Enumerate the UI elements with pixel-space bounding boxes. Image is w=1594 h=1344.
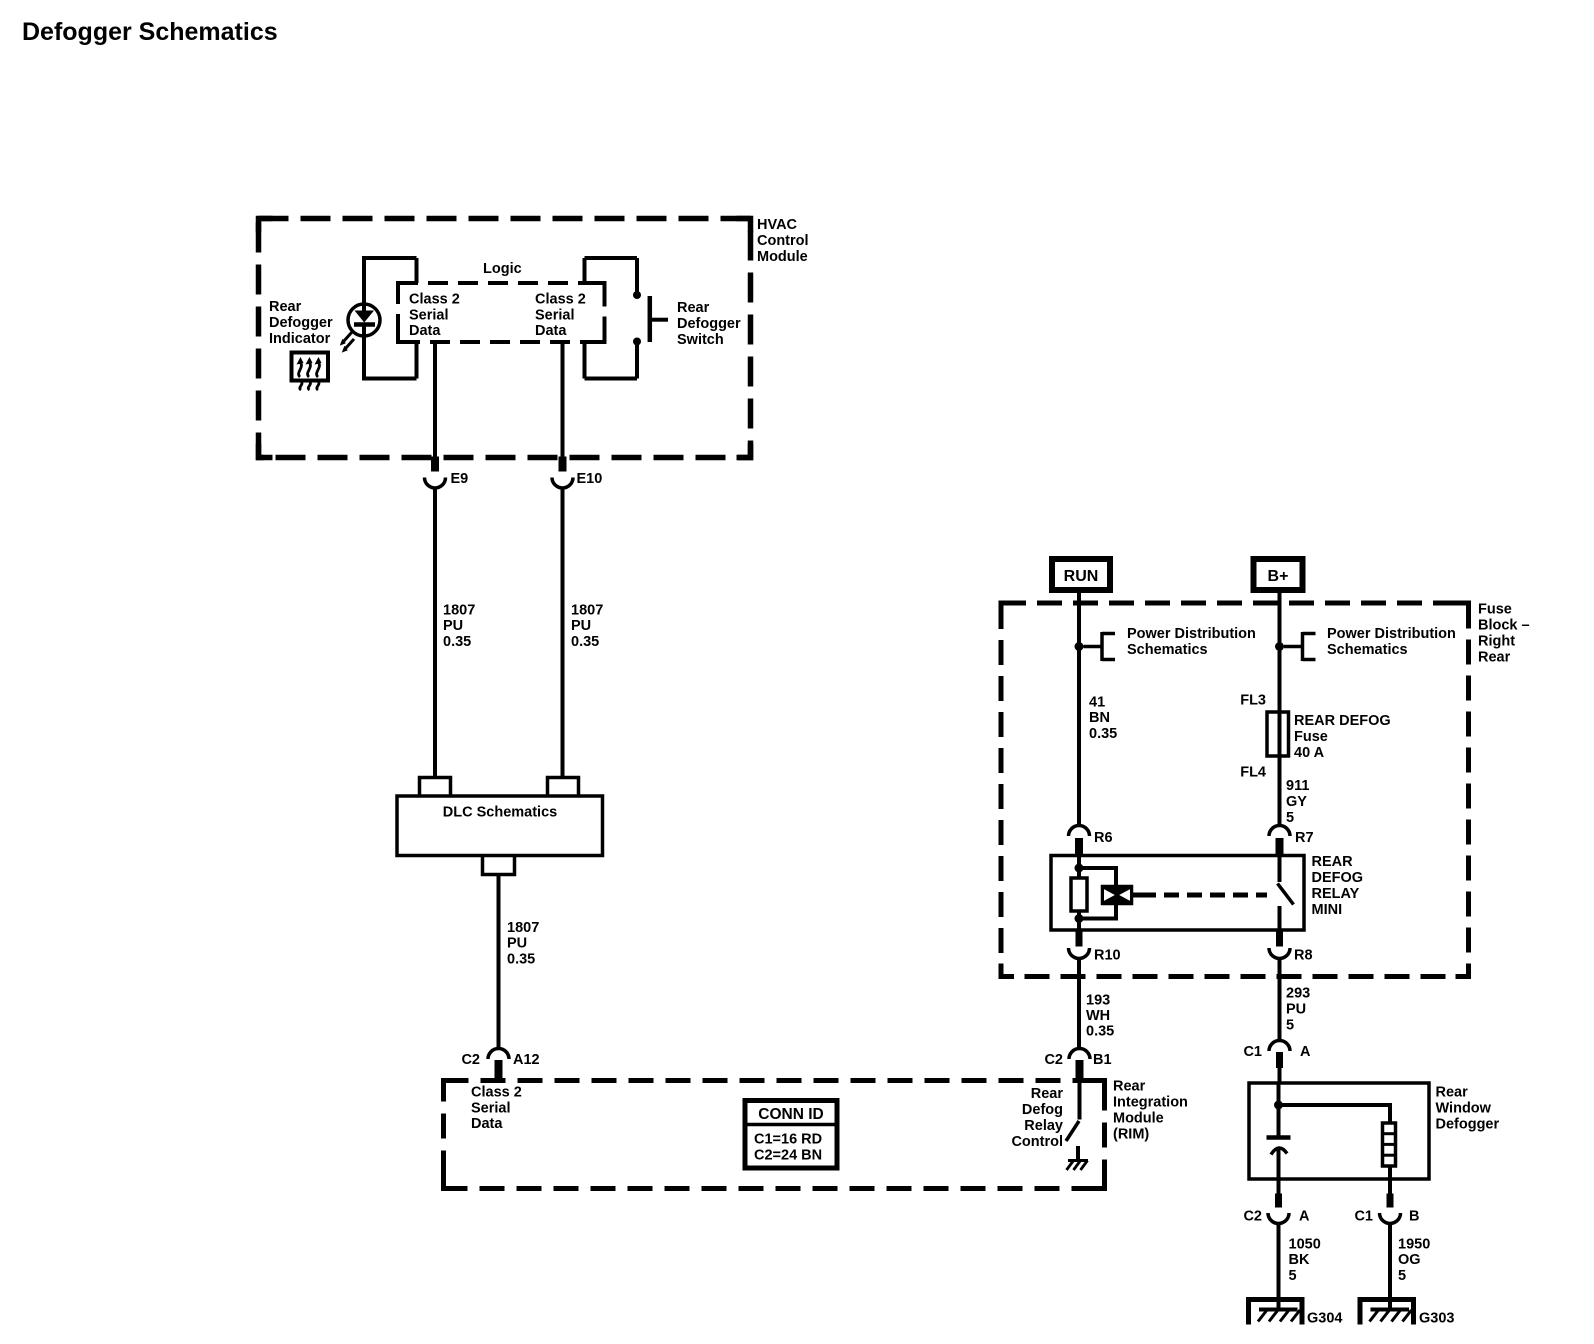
svg-text:A: A	[1300, 1044, 1311, 1060]
svg-text:Module: Module	[1113, 1111, 1164, 1127]
svg-text:Right: Right	[1478, 634, 1515, 650]
svg-text:E9: E9	[451, 471, 469, 487]
svg-text:R6: R6	[1094, 830, 1113, 846]
svg-text:Defogger: Defogger	[677, 316, 741, 332]
svg-text:Serial: Serial	[471, 1100, 511, 1116]
svg-text:Rear: Rear	[1478, 650, 1511, 666]
svg-text:DLC Schematics: DLC Schematics	[443, 805, 557, 821]
svg-text:E10: E10	[577, 471, 603, 487]
svg-text:C1=16 RD: C1=16 RD	[754, 1132, 822, 1148]
svg-text:Serial: Serial	[409, 307, 449, 323]
svg-text:Class 2: Class 2	[471, 1085, 522, 1101]
svg-text:0.35: 0.35	[1086, 1024, 1114, 1040]
svg-text:Block –: Block –	[1478, 618, 1530, 634]
svg-text:C2=24 BN: C2=24 BN	[754, 1148, 822, 1164]
svg-text:PU: PU	[507, 936, 527, 952]
svg-text:Window: Window	[1436, 1101, 1492, 1117]
svg-text:RELAY: RELAY	[1312, 886, 1360, 902]
svg-text:Rear: Rear	[1436, 1085, 1469, 1101]
svg-text:Power Distribution: Power Distribution	[1127, 626, 1256, 642]
svg-text:REAR: REAR	[1312, 854, 1354, 870]
svg-text:WH: WH	[1086, 1008, 1110, 1024]
svg-text:OG: OG	[1398, 1252, 1421, 1268]
svg-text:Control: Control	[757, 233, 809, 249]
svg-text:Integration: Integration	[1113, 1095, 1188, 1111]
svg-text:Fuse: Fuse	[1478, 602, 1512, 618]
svg-text:PU: PU	[571, 618, 591, 634]
svg-text:Fuse: Fuse	[1294, 729, 1328, 745]
svg-text:C2: C2	[461, 1052, 480, 1068]
svg-text:Rear: Rear	[677, 300, 710, 316]
svg-text:C2: C2	[1243, 1209, 1262, 1225]
svg-text:0.35: 0.35	[443, 634, 471, 650]
svg-text:Class 2: Class 2	[409, 292, 460, 308]
svg-text:FL3: FL3	[1240, 693, 1266, 709]
svg-text:Data: Data	[471, 1116, 503, 1132]
svg-text:293: 293	[1286, 986, 1310, 1002]
svg-text:193: 193	[1086, 993, 1110, 1009]
svg-text:Defogger Schematics: Defogger Schematics	[22, 18, 278, 46]
svg-text:BK: BK	[1289, 1252, 1310, 1268]
svg-text:Power Distribution: Power Distribution	[1327, 626, 1456, 642]
svg-text:Relay: Relay	[1024, 1118, 1063, 1134]
svg-text:1807: 1807	[507, 920, 539, 936]
svg-text:B: B	[1409, 1209, 1419, 1225]
svg-text:0.35: 0.35	[507, 952, 535, 968]
svg-text:REAR DEFOG: REAR DEFOG	[1294, 713, 1391, 729]
svg-text:1050: 1050	[1289, 1237, 1321, 1253]
svg-text:Schematics: Schematics	[1127, 642, 1208, 658]
svg-text:41: 41	[1089, 695, 1105, 711]
svg-text:C1: C1	[1354, 1209, 1373, 1225]
svg-text:Class 2: Class 2	[535, 292, 586, 308]
svg-text:5: 5	[1398, 1268, 1406, 1284]
svg-text:C1: C1	[1243, 1044, 1262, 1060]
svg-text:Schematics: Schematics	[1327, 642, 1408, 658]
svg-text:CONN ID: CONN ID	[758, 1106, 823, 1123]
svg-text:Defog: Defog	[1022, 1102, 1063, 1118]
svg-text:(RIM): (RIM)	[1113, 1127, 1149, 1143]
svg-text:0.35: 0.35	[571, 634, 599, 650]
svg-text:BN: BN	[1089, 710, 1110, 726]
svg-text:40 A: 40 A	[1294, 745, 1325, 761]
svg-text:Data: Data	[535, 323, 567, 339]
svg-text:Serial: Serial	[535, 307, 575, 323]
svg-text:5: 5	[1286, 1018, 1294, 1034]
svg-text:PU: PU	[1286, 1002, 1306, 1018]
svg-text:Control: Control	[1011, 1134, 1063, 1150]
svg-text:MINI: MINI	[1312, 902, 1343, 918]
svg-text:R7: R7	[1295, 830, 1314, 846]
svg-text:A12: A12	[513, 1052, 540, 1068]
svg-text:5: 5	[1286, 810, 1294, 826]
svg-text:R10: R10	[1094, 948, 1121, 964]
svg-text:Logic: Logic	[483, 261, 522, 277]
svg-text:B1: B1	[1093, 1052, 1112, 1068]
svg-text:Defogger: Defogger	[1436, 1117, 1500, 1133]
svg-text:Indicator: Indicator	[269, 331, 331, 347]
svg-text:0.35: 0.35	[1089, 726, 1117, 742]
svg-text:RUN: RUN	[1064, 568, 1099, 585]
svg-text:PU: PU	[443, 618, 463, 634]
svg-text:GY: GY	[1286, 794, 1307, 810]
svg-text:R8: R8	[1294, 948, 1313, 964]
svg-text:1807: 1807	[443, 603, 475, 619]
svg-text:Data: Data	[409, 323, 441, 339]
svg-text:Rear: Rear	[1113, 1079, 1146, 1095]
svg-text:C2: C2	[1044, 1052, 1063, 1068]
svg-text:B+: B+	[1268, 568, 1289, 585]
svg-text:FL4: FL4	[1240, 765, 1266, 781]
svg-text:G304: G304	[1307, 1311, 1342, 1327]
svg-text:Module: Module	[757, 249, 808, 265]
svg-text:HVAC: HVAC	[757, 217, 798, 233]
svg-text:Rear: Rear	[1031, 1086, 1064, 1102]
svg-text:Rear: Rear	[269, 299, 302, 315]
svg-text:DEFOG: DEFOG	[1312, 870, 1364, 886]
svg-text:A: A	[1299, 1209, 1310, 1225]
svg-text:1807: 1807	[571, 603, 603, 619]
svg-text:Switch: Switch	[677, 332, 724, 348]
svg-text:1950: 1950	[1398, 1237, 1430, 1253]
svg-text:911: 911	[1286, 778, 1309, 794]
svg-text:5: 5	[1289, 1268, 1297, 1284]
svg-text:G303: G303	[1419, 1311, 1454, 1327]
svg-text:Defogger: Defogger	[269, 315, 333, 331]
